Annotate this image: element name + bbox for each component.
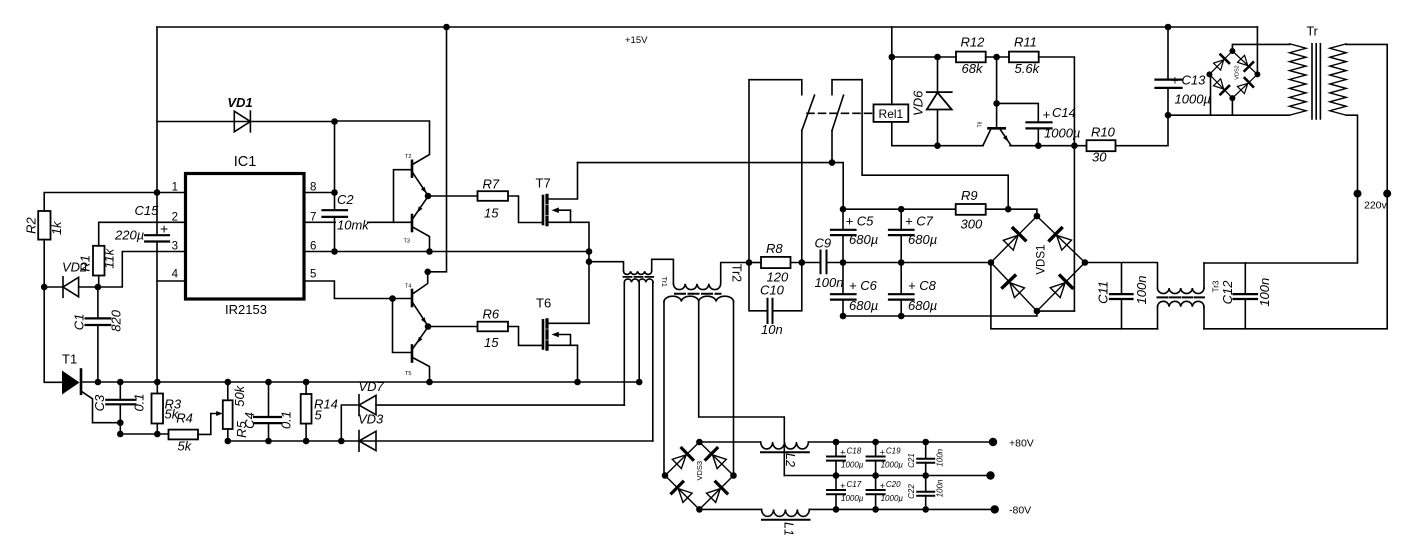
transformer Tr3 core [1158, 296, 1205, 298]
transformer Tr3 bottom winding [1158, 301, 1204, 307]
wire VDS2 top corner stub and line to Tr [1232, 44, 1289, 51]
svg-text:100n: 100n [936, 479, 945, 497]
wire T5 collector [413, 358, 430, 383]
wire contact2 lower lead [831, 131, 833, 163]
svg-text:100n: 100n [815, 275, 844, 290]
wire C1 leads [97, 287, 99, 382]
svg-text:T2: T2 [405, 154, 411, 160]
wire left vcc vertical x157 upper [156, 27, 158, 235]
svg-text:15: 15 [484, 206, 499, 221]
svg-text:+15V: +15V [625, 35, 648, 46]
wire Tr1 secondary left lead to VD7 [623, 282, 625, 405]
wire VDS2 left corner lead [1210, 74, 1212, 115]
transformer Tr2 core [675, 293, 721, 295]
svg-text:IC1: IC1 [234, 154, 257, 170]
wire T3 collector [413, 227, 430, 252]
inductor L2 core bar [761, 451, 809, 453]
wire Tr1 center tap to ground rail [638, 282, 640, 382]
wire pin7 to driver bases [304, 170, 411, 223]
wire pin2 to R1 top [99, 222, 186, 246]
svg-text:C17: C17 [847, 480, 862, 489]
wire T5 base feed [393, 299, 412, 353]
wire VD2 left stub [44, 286, 63, 288]
svg-text:L2: L2 [783, 453, 797, 467]
svg-text:680µ: 680µ [908, 298, 937, 313]
wire T5 emitter [413, 327, 429, 349]
resistor R4 body [169, 430, 199, 440]
capacitor C22 leads [925, 476, 927, 510]
svg-text:VD1: VD1 [227, 95, 252, 110]
svg-text:C4: C4 [242, 412, 257, 429]
transformer Tr left winding zigzag [1290, 44, 1307, 115]
wire T8 base lead [996, 57, 998, 128]
wire T4 emitter [413, 303, 429, 327]
junction dots [154, 189, 161, 196]
potentiometer R5 body [223, 400, 233, 429]
bridge VDS1 diode LT [1002, 228, 1025, 251]
transistor T5 base bar [411, 346, 414, 362]
wire T4 collector [413, 272, 428, 294]
wire VDS3 top to L2 [699, 441, 760, 443]
svg-text:T4: T4 [405, 284, 411, 290]
wire VDS1 right corner to EMI top [1085, 263, 1158, 289]
svg-text:+: + [840, 448, 845, 458]
svg-text:C1: C1 [72, 314, 87, 331]
svg-text:1k: 1k [49, 220, 64, 235]
svg-text:8: 8 [310, 182, 316, 194]
bridge VDS1 diamond [991, 216, 1085, 311]
wire halfbridge plus rail [578, 163, 844, 210]
svg-text:300: 300 [961, 217, 983, 232]
capacitor C22 plates [917, 492, 934, 496]
wire VD7 to Tr1 [376, 404, 624, 406]
capacitor C8 leads [900, 263, 902, 317]
capacitor C9 plates [821, 251, 827, 274]
svg-text:C20: C20 [886, 480, 901, 489]
wire row441 [228, 440, 653, 442]
svg-text:C15: C15 [135, 203, 160, 218]
transistor T2 base bar [411, 161, 414, 177]
resistor R2 body [38, 211, 50, 240]
bridge VDS2 diode LT [1213, 55, 1229, 71]
svg-text:680µ: 680µ [849, 232, 878, 247]
svg-text:IR2153: IR2153 [225, 302, 267, 317]
relay contact1 blade [802, 95, 815, 130]
wire relay contact2 frame [832, 80, 862, 95]
wire R12 to R11 [986, 56, 1009, 58]
wire VD2 right to node [79, 286, 98, 288]
svg-text:220v: 220v [1364, 200, 1388, 212]
svg-text:T7: T7 [536, 176, 551, 191]
resistor R9 body [956, 204, 986, 215]
svg-text:+: + [880, 481, 885, 491]
svg-text:L1: L1 [782, 522, 796, 536]
inductor L1 core bar [762, 519, 810, 521]
wire Tr right bottom lead to 220v [1346, 115, 1357, 193]
svg-text:VDS2: VDS2 [1235, 65, 1241, 79]
wire Tr2 secondary right lead to VDS3 [733, 302, 735, 476]
svg-text:50k: 50k [232, 384, 247, 406]
svg-text:7: 7 [310, 212, 316, 224]
svg-text:+: + [880, 448, 885, 458]
bridge VDS1 diode BL [1003, 276, 1026, 299]
capacitor C10 plates [768, 299, 773, 323]
svg-text:R9: R9 [961, 188, 978, 203]
svg-text:T1: T1 [62, 352, 77, 367]
resistor R7 body [478, 191, 509, 201]
capacitor C7 plates [889, 230, 914, 235]
svg-text:C22: C22 [907, 484, 916, 499]
wire contact2 right to R9 right [862, 80, 1008, 210]
svg-text:15: 15 [484, 335, 499, 350]
resistor R14 body [301, 394, 312, 424]
wire pin6 rail [304, 251, 589, 253]
wire halfbridge midpoint link [588, 252, 590, 262]
wire Tr2 center tap to output mid rail [699, 302, 785, 476]
wire VD6 leads [937, 57, 939, 146]
wire base node to C14 top [997, 103, 1039, 122]
wire midpoint to Tr1 [589, 262, 624, 272]
svg-text:1000µ: 1000µ [881, 461, 904, 470]
thyristor T1 cathode bar [80, 370, 83, 394]
wire L1 to -80V terminal [809, 508, 994, 510]
transistor T4 emitter arrow [421, 317, 427, 324]
svg-text:C21: C21 [907, 453, 916, 468]
wire R2 bottom to T1 anode [44, 240, 62, 383]
transistor T3 base bar [411, 215, 414, 231]
wire Rel1 top lead [891, 27, 893, 104]
svg-text:1000µ: 1000µ [841, 494, 864, 503]
svg-text:+ C5: + C5 [846, 214, 875, 229]
wire pin3 route [98, 252, 186, 288]
capacitor C19 plates [867, 457, 885, 461]
svg-text:Tr: Tr [1307, 25, 1318, 39]
wire C14 bottom [1037, 128, 1039, 145]
bridge VDS3 diamond [665, 442, 734, 509]
capacitor C6 leads [842, 263, 844, 317]
svg-text:5k: 5k [178, 439, 193, 454]
svg-text:+80V: +80V [1009, 438, 1034, 450]
transistor T8 emitter arrow [1003, 135, 1008, 142]
transformer Tr3 top winding [1158, 288, 1204, 294]
wire pin1 stub [157, 192, 186, 194]
capacitor C18 leads [835, 442, 837, 476]
potentiometer R5 wiper arrow [216, 411, 223, 416]
wire 220v right down to EMI bottom [1204, 194, 1387, 329]
svg-text:+ C8: + C8 [908, 278, 937, 293]
svg-text:C18: C18 [847, 447, 862, 456]
wire C13 bottom line to Tr [1168, 114, 1290, 116]
wire R4 to R5 wiper [198, 414, 217, 435]
capacitor C2 plates [323, 210, 348, 217]
svg-text:820: 820 [109, 309, 124, 331]
svg-text:R8: R8 [766, 241, 783, 256]
svg-text:1000µ: 1000µ [881, 494, 904, 503]
wire R7 to T7 gate [508, 196, 542, 223]
wire rail 145.7 to R10 [1010, 145, 1087, 147]
svg-text:10n: 10n [761, 322, 783, 337]
relay Rel1 body [874, 104, 909, 122]
capacitor C18 plates [827, 457, 845, 461]
capacitor C11 plates [1110, 294, 1133, 299]
wire R5 leads [227, 382, 229, 441]
wire Tr3 top right lead [1203, 263, 1205, 288]
bridge VDS2 diamond [1209, 51, 1257, 98]
bridge VDS1 diode RT [1050, 228, 1073, 251]
resistor R6 body [478, 322, 509, 332]
wire C5 bus to R9 [843, 208, 956, 210]
svg-text:VD7: VD7 [359, 379, 385, 394]
svg-text:4: 4 [172, 269, 179, 281]
bridge VDS3 diode RT [706, 448, 728, 470]
wire +15V top rail [157, 26, 1257, 28]
wire Tr1 to Tr2 link [652, 259, 674, 284]
wire T2 emitter [413, 173, 429, 196]
svg-text:C13: C13 [1182, 73, 1207, 88]
IC U1 IR2153 body [186, 174, 305, 300]
svg-text:+ C6: + C6 [849, 278, 878, 293]
wire R8 row left [749, 262, 761, 264]
diode VD1 [234, 111, 250, 132]
transformer Tr core lines [1312, 44, 1320, 119]
wire T7 drain to plus rail [549, 163, 578, 199]
svg-text:C14: C14 [1052, 105, 1076, 120]
svg-text:T8: T8 [978, 121, 984, 127]
transformer Tr2 secondary winding [664, 296, 734, 301]
wire VDS1 left corner down to EMI bottom [991, 263, 1158, 329]
capacitor C4 plates [254, 417, 281, 423]
capacitor C15 plates [145, 235, 169, 241]
capacitor C12 plates [1234, 294, 1258, 299]
MOSFET T6 gate bar [542, 320, 545, 348]
transistor T8 base bar [989, 127, 1005, 130]
wire L2 to +80V terminal [808, 441, 993, 443]
wire T4 base stub [393, 298, 412, 300]
resistor R10 body [1087, 140, 1116, 151]
wire relay bus y57 [892, 56, 956, 58]
wire T3 base stub [394, 221, 412, 223]
wire relay contact1 frame [749, 80, 802, 263]
svg-text:+: + [1171, 73, 1179, 88]
svg-text:VD3: VD3 [358, 412, 384, 427]
wire T1 gate [81, 391, 120, 423]
wire VD3 riser to Tr1 [652, 282, 654, 441]
capacitor C17 plates [827, 490, 845, 494]
wire node to R7 [428, 195, 478, 197]
svg-text:2: 2 [172, 212, 178, 224]
diode VD7 [359, 395, 376, 416]
wire R3 leads [156, 382, 158, 434]
transformer Tr1 core [624, 276, 654, 278]
svg-text:1000µ: 1000µ [1175, 92, 1211, 107]
capacitor C6 plates [831, 294, 856, 299]
bridge VDS3 diode BL [672, 482, 694, 504]
capacitor C7 leads [900, 209, 902, 262]
wire VD1 row [157, 121, 335, 123]
wire Tr2 secondary left lead to VDS3 [663, 302, 665, 476]
wire T6 source [549, 345, 578, 382]
svg-text:Tr3: Tr3 [1212, 280, 1221, 292]
wire VDS1 bottom corner to aux ground [1037, 310, 1075, 312]
svg-text:T3: T3 [404, 239, 410, 245]
capacitor C8 plates [889, 294, 914, 299]
svg-text:Rel1: Rel1 [879, 107, 904, 121]
svg-text:R4: R4 [176, 411, 193, 426]
wire C2 vertical leads [334, 122, 336, 252]
wire Tr3 bottom leads [1158, 307, 1205, 329]
wire R6 to T6 gate [508, 327, 542, 346]
wire C9 to C5C6 node and mid rail to VDS1 [827, 262, 991, 264]
svg-text:0.1: 0.1 [279, 411, 294, 429]
wire T6 drain vertical [588, 262, 590, 324]
svg-text:VDS1: VDS1 [1036, 245, 1048, 275]
svg-text:3: 3 [172, 241, 178, 253]
svg-text:-80V: -80V [1009, 505, 1031, 517]
svg-text:100n: 100n [1134, 276, 1149, 305]
MOSFET T6 body arrow [559, 335, 571, 346]
svg-text:+: + [840, 481, 845, 491]
capacitor C13 plates [1156, 80, 1182, 88]
svg-text:R1: R1 [78, 255, 93, 272]
capacitor C19 leads [875, 442, 877, 476]
svg-text:R11: R11 [1014, 35, 1037, 50]
wire top rail drop to VDS2 right corner [1256, 27, 1258, 74]
svg-text:C3: C3 [92, 394, 107, 411]
wire node to R6 [428, 326, 478, 328]
svg-text:5.6k: 5.6k [1015, 61, 1041, 76]
svg-text:5: 5 [310, 269, 316, 281]
wire pin4 stub [157, 280, 186, 282]
MOSFET T7 body arrow [559, 210, 571, 222]
svg-text:680µ: 680µ [849, 298, 878, 313]
thyristor T1 triangle [62, 371, 80, 395]
wire R8 to C9 [791, 262, 821, 264]
svg-text:0.1: 0.1 [132, 393, 147, 411]
wire Tr right top lead to 220v [1346, 44, 1387, 193]
inductor L2 winding [761, 442, 809, 449]
svg-text:C11: C11 [1096, 281, 1111, 304]
diode VD3 [359, 431, 376, 452]
svg-text:C10: C10 [760, 283, 785, 298]
wire row434 to R4 [120, 433, 168, 435]
wire T2 collector to bootstrap node [335, 121, 430, 165]
relay actuation dashed link [807, 112, 874, 114]
bridge VDS2 diode LB [1213, 78, 1229, 94]
wire VD7 branch [341, 405, 359, 441]
svg-text:C19: C19 [886, 447, 901, 456]
svg-text:C12: C12 [1220, 280, 1235, 305]
wire T6 drain stub [549, 322, 590, 324]
MOSFET T7 gate bar [542, 196, 545, 224]
wire Tr2 primary right lead [721, 263, 749, 284]
wire C10 branch right / relay contact1 lead [773, 131, 802, 311]
wire Rel1 bottom lead [892, 122, 983, 146]
MOSFET T6 channel bars [545, 320, 548, 349]
transformer Tr1 primary winding [624, 271, 652, 274]
capacitor C21 plates [917, 459, 934, 463]
capacitor C21 leads [925, 442, 927, 476]
svg-text:+ C7: + C7 [905, 214, 934, 229]
svg-text:10mk: 10mk [337, 218, 370, 233]
capacitor C11 leads [1121, 263, 1123, 329]
wire R9 right to VDS1 top [986, 209, 1037, 216]
svg-text:1: 1 [172, 182, 178, 194]
svg-text:VD6: VD6 [911, 90, 926, 116]
svg-text:T6: T6 [536, 296, 551, 311]
transistor T5 emitter arrow [417, 337, 423, 344]
svg-text:5: 5 [315, 408, 323, 423]
wire C15 lower vertical to ground rail [156, 242, 158, 383]
svg-text:C2: C2 [337, 192, 354, 207]
wire C4 leads [268, 382, 270, 441]
svg-text:30: 30 [1092, 150, 1107, 165]
wire T8 collector [983, 130, 991, 146]
svg-text:11k: 11k [102, 247, 117, 268]
capacitor C5 plates [831, 230, 856, 235]
bridge VDS1 diode BR [1049, 276, 1072, 299]
transformer Tr right winding zigzag [1330, 44, 1346, 115]
svg-text:Tr2: Tr2 [730, 264, 744, 282]
wire pin8 stub [304, 192, 335, 194]
svg-text:100n: 100n [1257, 278, 1272, 307]
MOSFET T7 channel bars [545, 195, 548, 224]
svg-text:220µ: 220µ [114, 228, 144, 243]
bridge VDS2 diode TR [1237, 55, 1253, 71]
capacitor C12 leads [1244, 263, 1246, 329]
transistor T2 emitter arrow [421, 187, 427, 194]
svg-text:VDS3: VDS3 [695, 461, 704, 481]
wire R14 leads [305, 382, 307, 441]
resistor R1 body [93, 246, 105, 276]
resistor R8 body [761, 257, 791, 268]
diode VD6 [927, 92, 952, 109]
bridge VDS3 diode BR [705, 482, 727, 504]
svg-text:R6: R6 [483, 307, 500, 322]
svg-text:68k: 68k [962, 61, 984, 76]
svg-text:C9: C9 [815, 236, 832, 251]
inductor L1 winding [762, 509, 810, 516]
capacitor C17 leads [835, 476, 837, 510]
transformer Tr2 primary winding [673, 284, 720, 290]
transistor T4 base bar [411, 290, 414, 306]
svg-text:+: + [1043, 107, 1051, 122]
wire VDS2 bottom corner lead [1231, 98, 1233, 115]
svg-text:1000µ: 1000µ [1044, 126, 1080, 141]
capacitor C20 leads [875, 476, 877, 510]
wire C10 branch left [749, 263, 768, 311]
svg-text:6: 6 [310, 241, 316, 253]
capacitor C5 leads [842, 209, 844, 262]
wire C13 top lead [1167, 27, 1169, 80]
wire C3 leads [119, 382, 121, 434]
svg-text:100n: 100n [936, 448, 945, 466]
wire R1 bottom [98, 276, 100, 288]
bridge VDS3 diode LT [671, 448, 693, 470]
wire 220v left down to EMI top [1204, 194, 1358, 263]
relay contact2 blade [832, 95, 844, 130]
svg-text:T5: T5 [405, 371, 411, 377]
svg-text:R12: R12 [961, 35, 986, 50]
capacitor C1 plates [86, 318, 111, 325]
svg-text:1000µ: 1000µ [841, 461, 864, 470]
diode VD2 [63, 277, 79, 298]
wire T8 emitter [1001, 130, 1012, 146]
resistor R11 body [1009, 52, 1039, 63]
resistor R3 body [152, 394, 164, 424]
wire output mid rail [784, 475, 990, 477]
transistor T3 emitter arrow [417, 206, 423, 213]
resistor R12 body [956, 52, 986, 63]
